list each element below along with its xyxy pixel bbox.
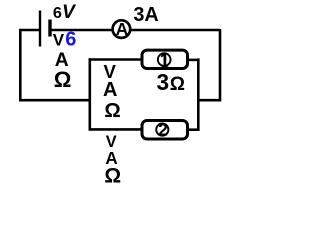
wire jog right rail to inner junction [197, 99, 221, 102]
wire right rail down [219, 29, 222, 100]
svg-text:6: 6 [53, 5, 62, 22]
svg-text:3A: 3A [133, 4, 159, 26]
battery B1 short plate [48, 20, 51, 37]
svg-text:2: 2 [158, 120, 168, 140]
wire R2 to inner right vertical [187, 128, 200, 131]
svg-text:A: A [103, 79, 117, 101]
wire bottom feed to parallel block [19, 99, 91, 102]
resistor R2 box [142, 121, 188, 140]
svg-text:Ω: Ω [170, 74, 185, 95]
ammeter A1 [113, 19, 131, 39]
svg-text:V: V [53, 30, 65, 49]
wire R1 to inner right vertical [187, 59, 200, 62]
resistor R1 box [142, 50, 188, 68]
wire top branch to R1 [89, 58, 143, 61]
wire inner right vertical joining R1 and R2 [197, 58, 200, 130]
battery B1 long plate [39, 11, 41, 47]
wire left rail [19, 29, 22, 100]
svg-text:V: V [62, 2, 77, 23]
svg-text:6: 6 [65, 28, 76, 50]
svg-text:Ω: Ω [54, 67, 72, 92]
svg-text:3: 3 [157, 69, 170, 95]
label ① circled 1 inside R1 [158, 53, 171, 67]
wire top-left from left rail to battery [19, 29, 39, 32]
label ② circled 2 inside R2 [156, 120, 168, 140]
svg-text:Ω: Ω [104, 165, 121, 188]
wire ammeter to top-right corner [131, 29, 220, 32]
wire bottom branch to R2 [89, 128, 143, 131]
wire left vertical of parallel block [89, 58, 92, 130]
svg-text:A: A [116, 19, 129, 39]
svg-text:Ω: Ω [104, 100, 120, 122]
wire battery to ammeter [50, 29, 113, 32]
